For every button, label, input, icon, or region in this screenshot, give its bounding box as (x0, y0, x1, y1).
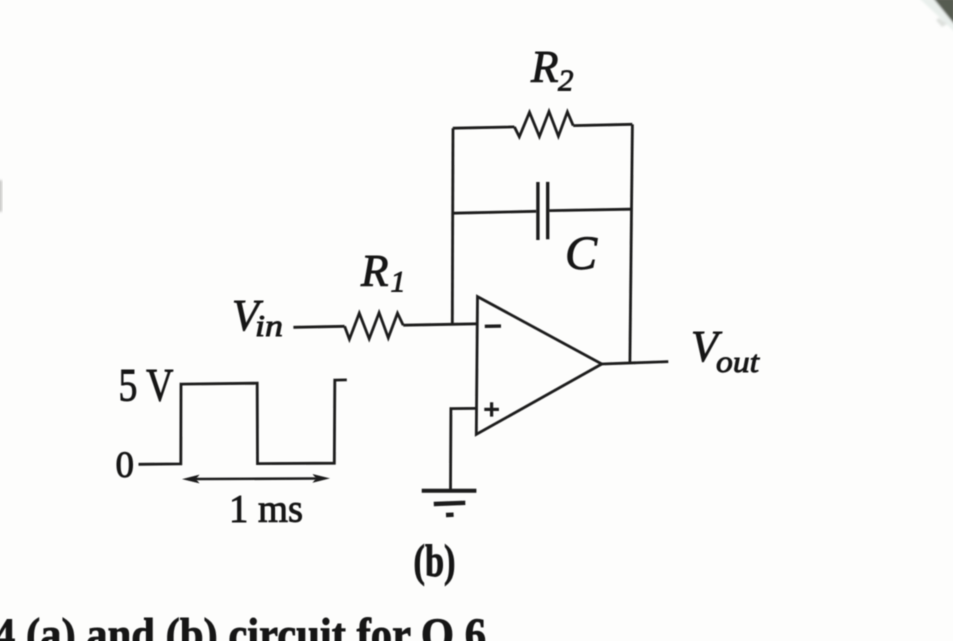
wire: feedback top-right segment (573, 124, 632, 125)
svg-text:in: in (255, 308, 283, 343)
svg-text:out: out (716, 344, 760, 379)
wire: non-inverting input to ground (451, 408, 477, 490)
svg-text:R: R (530, 42, 559, 92)
scan edge artifact left (0, 180, 2, 212)
dimension arrow 1 ms (195, 477, 317, 480)
square-wave input waveform (139, 380, 347, 464)
op-amp U1 (476, 297, 602, 435)
svg-text:(b): (b) (414, 535, 456, 586)
capacitor C left plate (536, 182, 539, 240)
svg-text:2: 2 (558, 63, 574, 98)
resistor R1 (345, 313, 404, 340)
wire: capacitor right lead (549, 209, 631, 210)
capacitor C right plate (546, 182, 549, 239)
svg-text:1: 1 (391, 266, 406, 299)
op-amp plus sign (484, 408, 499, 411)
wire: feedback left vertical (451, 128, 455, 324)
wire: feedback right vertical (630, 124, 633, 362)
resistor R2 (514, 112, 573, 137)
arrowhead left (182, 475, 200, 484)
wire: capacitor left lead (453, 211, 537, 213)
op-amp minus sign (485, 324, 501, 328)
wire: output (602, 362, 669, 364)
wire: feedback top-left segment (453, 127, 515, 128)
wire: R1 to inverting input (403, 324, 477, 325)
arrowhead right (313, 474, 331, 483)
svg-text:C: C (565, 227, 598, 280)
scan corner artifact top-right (919, 0, 953, 32)
svg-text:1 ms: 1 ms (229, 488, 303, 531)
svg-text:5 V: 5 V (119, 360, 174, 412)
wire: Vin lead (293, 326, 344, 327)
svg-text:0: 0 (116, 445, 135, 486)
svg-text:4 (a) and (b) circuit for Q 6: 4 (a) and (b) circuit for Q 6 (0, 609, 486, 641)
svg-text:R: R (360, 246, 389, 296)
ground (422, 489, 477, 493)
